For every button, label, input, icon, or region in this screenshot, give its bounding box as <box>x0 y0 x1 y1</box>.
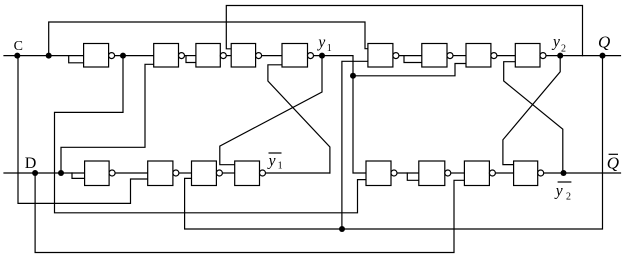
wire U7 output to U8 input <box>453 55 466 57</box>
gate U12 <box>192 161 223 186</box>
wire net y1bar cross-couple to U5 lower input <box>268 65 330 173</box>
gate U17 <box>514 161 544 186</box>
gate U6 <box>368 44 399 68</box>
wire U2 output to U3 input <box>185 55 196 57</box>
wire net C to U6 upper input (top distribution line y=22) <box>49 22 368 56</box>
wire U12 output to U13 input <box>222 172 234 174</box>
wire node y2 to node Q output <box>546 55 621 57</box>
label y2 <box>551 33 566 54</box>
wire net Cbar from U1 output down to U14 lower input <box>55 56 367 213</box>
wire U4 output to U5 input <box>262 55 282 57</box>
wire D input <box>4 172 85 174</box>
wire node y1bar output <box>266 172 330 174</box>
svg-text:Q: Q <box>598 33 610 52</box>
node C junction dot <box>14 53 20 59</box>
svg-text:2: 2 <box>561 44 566 55</box>
node D branch junction dot <box>58 170 64 176</box>
wire U3 output to U4 input <box>226 55 231 57</box>
wire U16 output to U17 input <box>495 172 513 174</box>
gate U16 <box>464 161 495 186</box>
wire U8 output to U9 input <box>497 55 515 57</box>
gate U3 <box>196 44 226 68</box>
svg-text:y: y <box>316 34 325 51</box>
svg-text:y: y <box>554 182 563 199</box>
wire U14 output to U15 input <box>397 172 419 174</box>
wire net y1 cross-couple to U13 upper input <box>220 56 322 165</box>
gate U15 <box>419 161 451 186</box>
node Q junction dot <box>600 53 606 59</box>
wire net Q down to U12 lower input <box>185 56 603 229</box>
wire tie stub into U7 lower input <box>404 56 422 63</box>
label y1 <box>316 34 331 54</box>
node Q feedback junction dot <box>339 226 345 232</box>
gate U7 <box>422 44 453 68</box>
wire C input <box>4 55 84 57</box>
gate U8 <box>466 44 497 68</box>
gate U1 <box>84 44 115 68</box>
label y2bar <box>554 182 572 202</box>
wire net D delayed to U16 lower input <box>35 173 464 253</box>
node y2bar junction dot <box>561 170 567 176</box>
svg-text:C: C <box>14 39 23 54</box>
wire net Q feedback (top line y=5.5) to U4 upper input <box>226 6 582 56</box>
svg-text:2: 2 <box>566 191 571 202</box>
gate U10 <box>85 161 116 186</box>
svg-text:Q: Q <box>607 154 619 173</box>
gate U2 <box>154 44 185 68</box>
label Qbar <box>607 154 619 173</box>
node Cbar junction dot <box>120 53 126 59</box>
wire D tie stub into U10 lower input <box>72 173 85 178</box>
wire net y2bar cross-couple to U9 lower input <box>504 62 563 173</box>
gate U13 <box>235 161 266 186</box>
wire node y2bar to node Qbar output <box>544 172 621 174</box>
gate U5 <box>282 44 314 68</box>
node y2 junction dot <box>557 53 563 59</box>
wire net D to U2 lower input <box>61 64 154 173</box>
wire U11 output to U12 input <box>179 172 192 174</box>
label y1bar <box>267 152 283 171</box>
wire tie stub into U15 lower input <box>407 173 419 180</box>
wire net C feedback down-left to U11 lower input <box>18 56 148 204</box>
node D junction dot <box>32 170 38 176</box>
node y1 branch junction dot <box>350 73 356 79</box>
svg-text:1: 1 <box>278 160 283 171</box>
svg-text:D: D <box>25 155 37 172</box>
gate U11 <box>148 161 179 186</box>
wire C tie stub into U1 lower input <box>69 56 84 63</box>
wire net y1 branch to U8 lower input <box>353 64 466 76</box>
svg-text:y: y <box>267 152 276 169</box>
wire node y1 output to U14 mid input <box>314 56 367 173</box>
node C branch junction dot <box>46 53 52 59</box>
wire net y2 cross-couple to U17 upper input <box>503 56 560 165</box>
wire U6 output to U7 input <box>399 55 422 57</box>
wire net Q feedback to U6 lower input <box>342 61 368 229</box>
wire tie stub into U3 lower input <box>186 56 196 63</box>
node y1 junction dot <box>319 53 325 59</box>
wire U15 output to U16 input <box>451 172 465 174</box>
gate U14 <box>366 161 397 186</box>
wire U1 output to U2 input <box>115 55 154 57</box>
gate U9 <box>515 44 546 68</box>
gate U4 <box>231 44 261 68</box>
svg-text:y: y <box>551 33 560 50</box>
wire U10 output to U11 input <box>115 172 148 174</box>
svg-text:1: 1 <box>327 43 332 54</box>
